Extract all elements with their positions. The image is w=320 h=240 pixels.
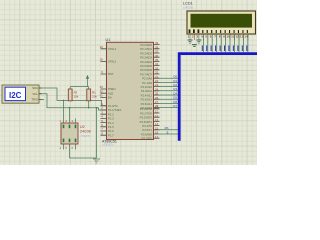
svg-text:EA: EA — [108, 96, 112, 100]
svg-text:PSEN: PSEN — [108, 87, 116, 91]
svg-text:19: 19 — [100, 45, 104, 49]
svg-text:P1.6: P1.6 — [108, 129, 114, 133]
svg-text:P2.4/A12: P2.4/A12 — [141, 93, 153, 97]
svg-text:P2.6/A14: P2.6/A14 — [141, 102, 153, 106]
svg-text:P3.7/RD: P3.7/RD — [142, 137, 152, 141]
svg-text:P0.6/AD6: P0.6/AD6 — [140, 68, 152, 72]
svg-text:P3.0/RXD: P3.0/RXD — [140, 107, 152, 111]
svg-text:E: E — [167, 130, 169, 134]
svg-text:<TEXT>: <TEXT> — [80, 134, 91, 138]
svg-text:XTAL1: XTAL1 — [108, 47, 117, 51]
svg-text:U2: U2 — [80, 125, 85, 129]
svg-text:ALE: ALE — [108, 91, 113, 95]
svg-text:P1.5: P1.5 — [108, 125, 114, 129]
svg-text:P3.6/WR: P3.6/WR — [141, 132, 152, 136]
svg-text:10k: 10k — [92, 95, 97, 99]
svg-text:P3.1/TXD: P3.1/TXD — [140, 111, 152, 115]
svg-text:TRIG: TRIG — [31, 98, 38, 102]
svg-text:U1: U1 — [106, 38, 111, 42]
svg-text:P0.4/AD4: P0.4/AD4 — [140, 60, 152, 64]
svg-text:P0.7/AD7: P0.7/AD7 — [140, 72, 152, 76]
svg-text:P2.3/A11: P2.3/A11 — [141, 89, 153, 93]
svg-text:SCL: SCL — [33, 92, 39, 96]
svg-text:P1.2: P1.2 — [108, 112, 114, 116]
svg-text:P3.5/T1: P3.5/T1 — [142, 128, 152, 132]
svg-text:RST: RST — [108, 72, 114, 76]
svg-text:P1.0/T2: P1.0/T2 — [108, 104, 118, 108]
svg-text:P0.2/AD2: P0.2/AD2 — [140, 51, 152, 55]
svg-text:P1.1/T2EX: P1.1/T2EX — [108, 108, 121, 112]
svg-text:LM016L: LM016L — [183, 6, 194, 10]
svg-text:P2.0/A8: P2.0/A8 — [142, 77, 152, 81]
svg-text:I2C: I2C — [9, 91, 22, 100]
svg-text:P0.0/AD0: P0.0/AD0 — [140, 43, 152, 47]
svg-text:P3.3/INT1: P3.3/INT1 — [140, 120, 153, 124]
svg-text:P1.7: P1.7 — [108, 133, 114, 137]
svg-text:P2.2/A10: P2.2/A10 — [141, 85, 153, 89]
svg-text:P0.5/AD5: P0.5/AD5 — [140, 64, 152, 68]
svg-text:P0.1/AD1: P0.1/AD1 — [140, 47, 152, 51]
svg-text:10k: 10k — [74, 95, 79, 99]
svg-text:24C08: 24C08 — [80, 130, 91, 134]
svg-text:P2.1/A9: P2.1/A9 — [142, 81, 152, 85]
svg-text:P1.4: P1.4 — [108, 121, 114, 125]
svg-text:17: 17 — [155, 135, 159, 139]
svg-text:18: 18 — [100, 58, 104, 62]
svg-text:XTAL2: XTAL2 — [108, 60, 117, 64]
svg-text:D7: D7 — [173, 104, 177, 108]
svg-text:SDA: SDA — [32, 86, 38, 90]
svg-text:P1.3: P1.3 — [108, 117, 114, 121]
svg-text:P2.5/A13: P2.5/A13 — [141, 98, 153, 102]
svg-text:<TEXT>: <TEXT> — [102, 143, 114, 147]
svg-text:31: 31 — [100, 94, 104, 98]
svg-text:P3.4/T0: P3.4/T0 — [142, 124, 152, 128]
svg-text:P3.2/INT0: P3.2/INT0 — [140, 116, 153, 120]
svg-text:P0.3/AD3: P0.3/AD3 — [140, 56, 152, 60]
svg-text:11: 11 — [231, 35, 235, 39]
